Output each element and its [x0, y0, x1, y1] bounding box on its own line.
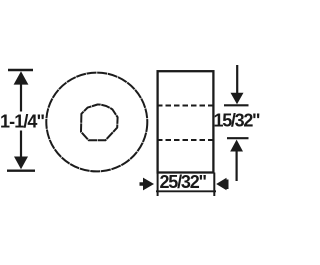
- dim 15/32 upper tick bar: [224, 104, 249, 106]
- svg-text:1-1/4": 1-1/4": [0, 112, 45, 132]
- dim 25/32 right arrow tail block: [225, 180, 229, 190]
- dim 15/32 up arrowhead: [230, 140, 243, 152]
- svg-text:25/32": 25/32": [160, 172, 207, 192]
- dim 1-1/4 down arrowhead: [14, 157, 28, 170]
- dim 15/32 down arrowhead: [231, 93, 244, 105]
- dim 25/32 left arrowhead: [143, 178, 154, 191]
- dim 25/32 box bottom line: [156, 190, 216, 192]
- dim 1-1/4 lower leader line: [20, 131, 22, 159]
- dim 25/32 right arrowhead: [216, 178, 226, 190]
- dim 1-1/4 up arrowhead: [14, 71, 29, 84]
- hidden line (upper dashed): [157, 105, 213, 107]
- dim 25/32 left arrow tail: [140, 182, 145, 186]
- left extension line below rect: [157, 173, 159, 197]
- outer circle (front view of spacer): [46, 73, 147, 172]
- hidden line (lower dashed): [157, 139, 213, 141]
- dim 1-1/4 bottom tick bar: [7, 169, 35, 171]
- dim 1-1/4 upper leader line: [20, 83, 22, 112]
- dim 15/32 upper leader line: [236, 65, 238, 94]
- hex hole (center hexagonal bore): [81, 104, 118, 140]
- right extension line below rect: [213, 173, 215, 197]
- dim 1-1/4 top tick bar: [8, 69, 33, 71]
- side view rectangle: [158, 71, 214, 172]
- dim 15/32 lower leader line: [236, 151, 238, 182]
- svg-text:15/32": 15/32": [214, 111, 261, 131]
- dim 15/32 lower tick bar: [227, 137, 249, 139]
